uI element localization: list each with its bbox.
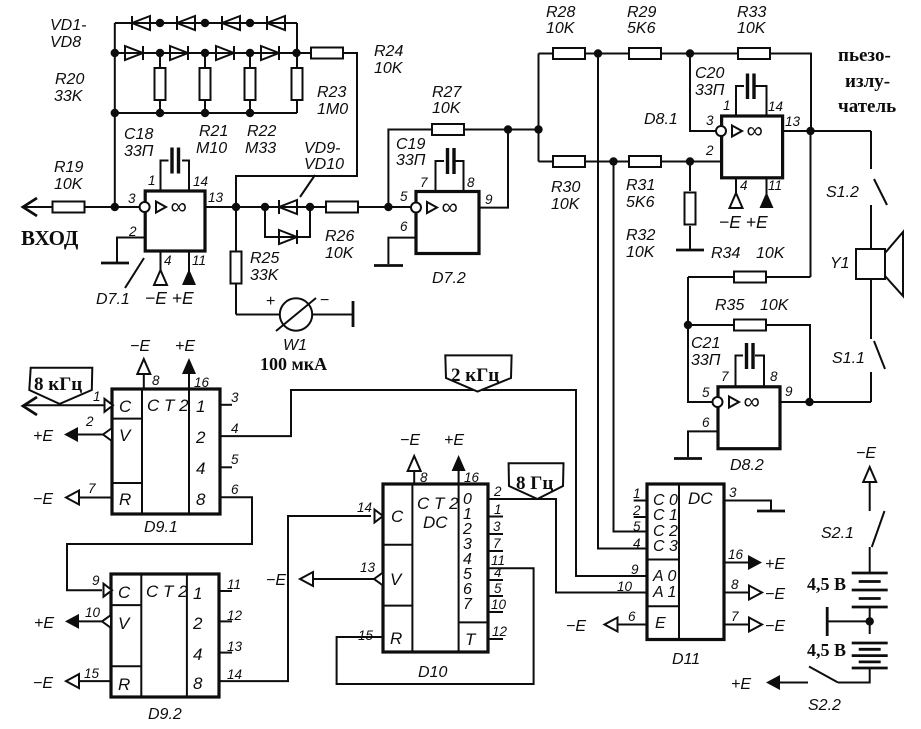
svg-text:C19: C19	[396, 136, 425, 153]
flag 8 kHz	[29, 368, 92, 404]
svg-text:4,5 В: 4,5 В	[807, 574, 846, 594]
svg-text:C: C	[119, 397, 132, 416]
label piezo emitter	[838, 45, 896, 117]
svg-text:33П: 33П	[124, 143, 154, 160]
decoder D11	[647, 484, 724, 668]
wire R33 node down to R34	[810, 131, 812, 277]
input pin1 C0 D11	[633, 486, 647, 501]
svg-text:13: 13	[785, 114, 801, 129]
svg-text:D9.2: D9.2	[148, 706, 182, 723]
diode pair VD9 VD10	[261, 140, 344, 244]
svg-text:14: 14	[357, 500, 372, 515]
output pin6 D9.1 wire to pin9 D9.2	[67, 482, 252, 590]
junction pin13 node	[232, 203, 240, 211]
svg-text:10K: 10K	[626, 244, 656, 261]
svg-text:7: 7	[463, 596, 473, 613]
junction node B top	[609, 157, 617, 165]
svg-text:чатель: чатель	[838, 96, 896, 117]
svg-text:1: 1	[148, 173, 156, 188]
svg-text:3: 3	[729, 485, 737, 500]
svg-text:4: 4	[633, 536, 641, 551]
svg-text:4: 4	[164, 253, 172, 268]
svg-text:8: 8	[152, 373, 160, 388]
svg-text:10K: 10K	[374, 60, 404, 77]
svg-text:ВХОД: ВХОД	[21, 226, 79, 250]
svg-text:DC: DC	[423, 513, 448, 532]
resistor R32	[626, 162, 696, 262]
resistor R25	[231, 207, 280, 315]
reset loop pin11 to pin15 D10	[337, 568, 534, 684]
svg-text:−E +E: −E +E	[145, 288, 194, 308]
svg-text:14: 14	[193, 174, 208, 189]
output pin14 D9.2 wire to pin14 D10	[219, 516, 371, 682]
svg-text:6: 6	[400, 219, 408, 234]
svg-text:2: 2	[192, 614, 203, 633]
switch S2.1	[821, 511, 885, 547]
svg-text:8: 8	[196, 490, 206, 509]
diode VD4	[170, 46, 188, 60]
svg-text:−: −	[320, 292, 329, 309]
svg-text:−E: −E	[566, 618, 586, 635]
power pin10 +E D9.2	[34, 605, 111, 632]
svg-text:5K6: 5K6	[627, 20, 656, 37]
svg-text:10K: 10K	[760, 297, 790, 314]
svg-text:15: 15	[358, 628, 374, 643]
wire diode network left vertical	[114, 23, 116, 207]
svg-text:излу-: излу-	[845, 71, 890, 92]
output pin3 D9.1	[220, 390, 239, 405]
diode VD2	[125, 46, 143, 60]
svg-text:−E: −E	[33, 491, 53, 508]
svg-text:1M0: 1M0	[317, 101, 348, 118]
wire pin13 D8.1 output	[783, 130, 871, 132]
svg-text:R23: R23	[317, 84, 346, 101]
svg-text:10K: 10K	[551, 196, 581, 213]
ground pin6 D7.2	[374, 238, 416, 266]
svg-text:C T 2: C T 2	[146, 582, 188, 601]
counter-decoder D10	[383, 484, 488, 681]
output pin4 D9.1 wire to 2kHz and D11 A0	[220, 390, 647, 576]
resistor R31	[626, 156, 661, 211]
svg-text:2 кГц: 2 кГц	[451, 365, 499, 386]
svg-text:DC: DC	[688, 489, 713, 508]
svg-text:R: R	[118, 675, 130, 694]
wire pin13 D7.1 output row	[205, 206, 327, 208]
svg-text:R32: R32	[626, 227, 655, 244]
svg-text:−E: −E	[130, 338, 150, 355]
svg-text:+E: +E	[33, 428, 53, 445]
power pin7 -E D9.1	[33, 481, 112, 508]
resistor R35	[688, 297, 810, 402]
svg-text:2: 2	[493, 484, 502, 499]
wire pin9 D8.2 output	[780, 401, 871, 403]
svg-text:10K: 10K	[432, 100, 462, 117]
svg-text:R24: R24	[374, 43, 403, 60]
svg-text:S2.2: S2.2	[808, 697, 841, 714]
svg-text:3: 3	[706, 113, 714, 128]
speaker Y1	[830, 205, 903, 296]
svg-text:+E: +E	[444, 432, 464, 449]
resistor R24	[311, 43, 404, 77]
svg-text:8: 8	[420, 470, 428, 485]
svg-text:4: 4	[740, 178, 748, 193]
svg-text:R19: R19	[54, 159, 83, 176]
junction node R29/R33/pin3	[686, 49, 694, 57]
wire node A down to D11 C3	[598, 54, 647, 549]
power -E arrow top right battery	[856, 445, 876, 511]
ground pin6 D8.2	[674, 431, 718, 458]
svg-text:C T 2: C T 2	[147, 396, 189, 415]
svg-text:D7.1: D7.1	[96, 291, 130, 308]
svg-text:8: 8	[770, 369, 778, 384]
svg-text:+E: +E	[765, 556, 785, 573]
op-amp D7.1	[96, 173, 224, 308]
svg-text:R: R	[390, 629, 402, 648]
svg-text:1: 1	[196, 397, 205, 416]
svg-text:A 0: A 0	[652, 568, 677, 585]
svg-text:4,5 В: 4,5 В	[807, 640, 846, 660]
svg-text:14: 14	[768, 99, 783, 114]
wire R31 to pin2 D8.1	[661, 161, 722, 163]
wire R28 to R29	[585, 53, 629, 55]
op-amp D7.2	[400, 175, 493, 287]
battery center tap terminal	[827, 607, 874, 636]
svg-text:33П: 33П	[396, 152, 426, 169]
capacitor C21	[691, 335, 764, 387]
svg-text:15: 15	[84, 666, 100, 681]
diode VD1	[132, 16, 150, 30]
output pin10 D10	[487, 597, 507, 612]
output pin4 D10	[487, 565, 503, 580]
svg-text:−E: −E	[765, 586, 785, 603]
output pin3 D10	[487, 519, 503, 534]
svg-text:3: 3	[128, 191, 136, 206]
junction R26/R27 node	[384, 203, 392, 211]
svg-text:R21: R21	[199, 123, 228, 140]
junction dots top row	[156, 19, 254, 27]
junction dots second row	[111, 49, 301, 57]
label VD1-VD8	[50, 17, 86, 51]
power pin2 +E D9.1	[33, 414, 112, 445]
wire node B down to D11 C2	[614, 162, 648, 532]
svg-text:4: 4	[231, 421, 239, 436]
wire diode network top row	[115, 22, 297, 24]
wire node to R28/R30 split	[538, 54, 540, 162]
junction pin13/R33/R34	[806, 127, 814, 135]
output pin7 D10	[487, 536, 503, 551]
counter D9.1	[112, 389, 220, 536]
flag 8 Hz	[509, 463, 564, 499]
diode VD3	[177, 16, 195, 30]
pin14 C input D10	[357, 500, 383, 523]
svg-text:7: 7	[721, 369, 729, 384]
svg-text:D7.2: D7.2	[432, 270, 466, 287]
wire R26 to pin5 D7.2	[358, 206, 412, 208]
svg-text:10: 10	[617, 579, 633, 594]
svg-text:R31: R31	[626, 177, 655, 194]
svg-text:10K: 10K	[325, 245, 355, 262]
svg-text:C18: C18	[124, 126, 153, 143]
junction R31/R32/pin2	[686, 157, 694, 165]
meter W1	[236, 292, 353, 374]
diode VD6	[216, 46, 234, 60]
svg-text:9: 9	[92, 573, 100, 588]
svg-text:D11: D11	[672, 651, 700, 668]
power pin13 -E D10	[266, 560, 383, 589]
resistor R34	[688, 245, 811, 283]
svg-text:C 1: C 1	[653, 507, 678, 524]
svg-text:33П: 33П	[695, 82, 725, 99]
resistor R21	[196, 53, 228, 157]
power pin16 +E D9.1	[175, 338, 210, 390]
power pin11 +E D8.1	[760, 178, 783, 208]
svg-text:13: 13	[208, 190, 224, 205]
power pin16 +E D10	[444, 432, 480, 485]
wire R34/R35 left to pin5 D8.2	[688, 277, 713, 402]
diode VD5	[222, 16, 240, 30]
svg-text:S1.1: S1.1	[832, 350, 865, 367]
wire R33 to pin13 node	[770, 54, 811, 132]
capacitor C19	[396, 136, 464, 192]
svg-text:Y1: Y1	[830, 255, 850, 272]
wire diode network bottom bus	[115, 112, 297, 114]
output pin12 T D10	[487, 624, 508, 639]
svg-text:D10: D10	[418, 664, 447, 681]
svg-text:10K: 10K	[737, 20, 767, 37]
svg-text:8: 8	[467, 175, 475, 190]
junction dots bottom bus	[111, 109, 255, 117]
svg-text:11: 11	[227, 577, 241, 592]
svg-text:R30: R30	[551, 179, 580, 196]
svg-text:11: 11	[192, 253, 206, 268]
svg-text:A 1: A 1	[652, 584, 676, 601]
svg-text:R26: R26	[325, 228, 354, 245]
svg-text:1: 1	[723, 98, 731, 113]
svg-text:R25: R25	[250, 250, 279, 267]
svg-text:4: 4	[196, 459, 205, 478]
svg-text:−E: −E	[400, 432, 420, 449]
svg-text:−E: −E	[765, 618, 785, 635]
capacitor C20	[695, 65, 767, 116]
wire input to pin3 D7.1	[23, 206, 144, 208]
svg-text:2: 2	[632, 503, 641, 518]
svg-text:33П: 33П	[691, 352, 721, 369]
svg-text:4: 4	[193, 645, 202, 664]
svg-text:R34: R34	[711, 245, 740, 262]
svg-text:M10: M10	[196, 140, 227, 157]
svg-text:8 Гц: 8 Гц	[516, 473, 553, 494]
svg-text:M33: M33	[245, 140, 276, 157]
svg-text:7: 7	[88, 481, 96, 496]
output pin11 D9.2	[219, 577, 241, 592]
wire R30 to R31	[585, 161, 629, 163]
svg-text:+E: +E	[175, 338, 195, 355]
capacitor C18	[124, 126, 189, 191]
svg-text:1: 1	[494, 502, 502, 517]
svg-text:10K: 10K	[546, 20, 576, 37]
svg-text:10K: 10K	[54, 176, 84, 193]
resistor R26	[325, 202, 358, 263]
svg-text:16: 16	[464, 470, 480, 485]
svg-text:−E: −E	[266, 572, 286, 589]
ground R32	[676, 249, 704, 252]
wire R24 feedback loop to pin13 node	[236, 53, 357, 207]
svg-text:1: 1	[93, 389, 101, 404]
svg-text:V: V	[390, 570, 403, 589]
svg-text:T: T	[465, 630, 477, 649]
svg-text:14: 14	[227, 667, 242, 682]
svg-text:9: 9	[785, 384, 793, 399]
svg-text:1: 1	[633, 486, 641, 501]
svg-text:5: 5	[633, 519, 641, 534]
svg-text:R22: R22	[247, 123, 276, 140]
battery GB1 4,5V	[807, 547, 888, 634]
output pin5 D10	[487, 581, 503, 596]
power +E arrow bottom battery	[731, 675, 808, 693]
power pin11 +E D7.1	[182, 251, 206, 285]
svg-text:2: 2	[705, 143, 714, 158]
svg-text:8: 8	[731, 577, 739, 592]
svg-text:5: 5	[702, 385, 710, 400]
svg-text:−E +E: −E +E	[719, 212, 768, 232]
junction R27 output nodes	[504, 125, 543, 133]
svg-text:8 кГц: 8 кГц	[34, 374, 82, 395]
svg-text:+: +	[266, 293, 275, 310]
output pin8 -E D11	[724, 577, 785, 603]
ground pin2 D7.1	[101, 238, 145, 264]
svg-text:+E: +E	[731, 676, 751, 693]
svg-text:11: 11	[768, 178, 782, 193]
svg-text:C21: C21	[691, 335, 720, 352]
input pin6 E D11	[566, 609, 647, 635]
svg-text:C 3: C 3	[653, 538, 678, 555]
svg-text:12: 12	[492, 624, 508, 639]
op-amp D8.1	[644, 98, 801, 178]
output pin3 D11 to ground	[724, 485, 785, 511]
svg-text:D9.1: D9.1	[144, 519, 178, 536]
svg-text:7: 7	[420, 175, 428, 190]
battery GB2 4,5V	[807, 640, 888, 683]
svg-text:VD9-: VD9-	[304, 140, 340, 157]
resistor R22	[245, 53, 277, 157]
svg-text:16: 16	[728, 547, 744, 562]
node junction input/diode-network	[111, 203, 119, 211]
svg-text:+E: +E	[34, 615, 54, 632]
svg-text:S1.2: S1.2	[826, 184, 859, 201]
wire R29 to R33	[661, 53, 738, 55]
input pin2 C1 D11	[632, 503, 647, 518]
svg-text:13: 13	[360, 560, 376, 575]
output pin5 D9.1	[220, 452, 239, 467]
resistor R30	[539, 156, 586, 213]
svg-text:5: 5	[400, 189, 408, 204]
svg-text:33K: 33K	[54, 88, 84, 105]
power pin4 -E D7.1	[154, 251, 172, 285]
svg-text:1: 1	[193, 584, 202, 603]
svg-text:6: 6	[231, 482, 239, 497]
svg-text:C20: C20	[695, 65, 724, 82]
output pin12 D9.2	[219, 608, 243, 623]
resistor R29	[627, 4, 661, 59]
junction pin9/R35/S1.1	[805, 398, 813, 406]
svg-text:6: 6	[628, 609, 636, 624]
svg-text:−E: −E	[856, 445, 876, 462]
svg-text:10K: 10K	[756, 245, 786, 262]
svg-text:10: 10	[491, 597, 507, 612]
resistor R20	[54, 53, 166, 113]
switch S1.2	[826, 131, 887, 205]
svg-text:пьезо-: пьезо-	[838, 45, 891, 66]
diode VD8	[261, 46, 279, 60]
junction R35 left node	[684, 321, 692, 329]
svg-text:9: 9	[631, 562, 639, 577]
power pin15 -E D9.2	[33, 666, 111, 692]
svg-text:7: 7	[493, 536, 501, 551]
input off-page arrow ВХОД	[23, 198, 37, 216]
svg-text:2: 2	[195, 428, 206, 447]
svg-text:R28: R28	[546, 4, 575, 21]
svg-text:E: E	[655, 615, 666, 632]
svg-text:16: 16	[194, 375, 210, 390]
wire pin3 D8.1 from R29/R33 node	[690, 54, 716, 132]
svg-text:D8.1: D8.1	[644, 111, 678, 128]
svg-text:R29: R29	[627, 4, 656, 21]
svg-text:C: C	[118, 583, 131, 602]
wire diode network second row	[115, 52, 311, 54]
svg-text:3: 3	[231, 390, 239, 405]
svg-text:12: 12	[227, 608, 243, 623]
pin9 C input D9.2	[92, 573, 112, 597]
svg-text:7: 7	[731, 609, 739, 624]
output pin13 D9.2	[219, 639, 243, 654]
svg-text:C T 2: C T 2	[417, 494, 459, 513]
flag 2 kHz	[445, 355, 511, 391]
svg-text:D8.2: D8.2	[730, 457, 764, 474]
power pin8 -E D9.1	[130, 338, 160, 389]
svg-text:VD1-: VD1-	[50, 17, 86, 34]
power pin8 -E D10	[400, 432, 428, 485]
svg-text:VD8: VD8	[50, 34, 81, 51]
svg-text:6: 6	[702, 415, 710, 430]
svg-text:S2.1: S2.1	[821, 525, 854, 542]
svg-text:R: R	[119, 490, 131, 509]
svg-text:10: 10	[85, 605, 101, 620]
output pin1 D10	[487, 502, 503, 517]
output pin16 +E D11	[724, 547, 785, 573]
svg-text:R33: R33	[737, 4, 766, 21]
svg-text:V: V	[119, 426, 132, 445]
junction node A top	[594, 49, 602, 57]
wire diode network right vertical	[296, 23, 298, 53]
svg-text:5K6: 5K6	[626, 194, 655, 211]
output pin2 D10 wire to 8Hz flag and D11 A1	[487, 484, 647, 593]
svg-text:R35: R35	[715, 297, 744, 314]
op-amp D8.2	[702, 369, 793, 474]
counter D9.2	[111, 574, 219, 723]
power pin4 -E D8.1	[730, 178, 748, 208]
diode VD7	[267, 16, 285, 30]
switch S2.2	[808, 667, 841, 715]
svg-text:VD10: VD10	[304, 156, 344, 173]
output pin7 -E D11	[724, 609, 785, 635]
resistor R19	[53, 159, 85, 213]
svg-text:13: 13	[227, 639, 243, 654]
svg-text:W1: W1	[283, 337, 307, 354]
svg-text:−E: −E	[33, 675, 53, 692]
switch S1.1	[832, 279, 885, 402]
svg-text:V: V	[118, 614, 131, 633]
svg-text:R27: R27	[432, 84, 462, 101]
